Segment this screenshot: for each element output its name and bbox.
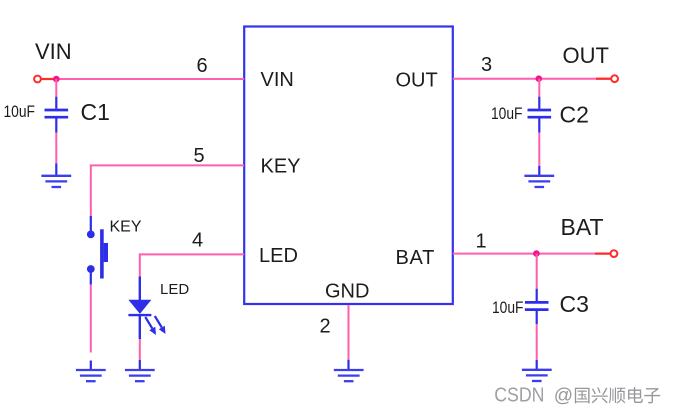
terminal BAT (611, 250, 618, 257)
svg-text:C1: C1 (81, 99, 110, 125)
svg-text:BAT: BAT (561, 214, 604, 240)
IC U1 body (244, 27, 453, 305)
svg-text:C2: C2 (560, 102, 589, 128)
ground KEY (76, 370, 106, 381)
capacitor C3 plates (525, 302, 549, 309)
wire C3 upper (536, 254, 538, 289)
capacitor C2 plates (528, 110, 552, 117)
wire BAT horizontal (453, 253, 610, 255)
switch KEY contact bottom (87, 265, 95, 273)
LED D1 bottom lead (139, 315, 141, 339)
svg-text:C3: C3 (560, 291, 589, 317)
switch KEY actuator bar (100, 229, 104, 278)
wire C1 lower (55, 133, 57, 164)
svg-text:VIN: VIN (35, 39, 72, 64)
capacitor C2 lead bottom (538, 119, 540, 133)
wire KEY pin5 horizontal (91, 165, 244, 218)
wire GND pin2 vertical (348, 305, 350, 360)
wire VIN horizontal (42, 78, 245, 80)
svg-text:BAT: BAT (396, 247, 436, 269)
switch KEY contact top (87, 231, 95, 239)
wire OUT horizontal (453, 78, 611, 80)
wire KEY to ground (90, 285, 92, 353)
ground C1 (41, 176, 71, 187)
watermark char zi (644, 388, 660, 403)
svg-text:3: 3 (481, 54, 492, 76)
wire LED to ground (139, 339, 141, 361)
ground lead KEY (90, 361, 92, 370)
capacitor C3 lead bottom (536, 311, 538, 324)
wire C3 lower (536, 324, 538, 360)
svg-text:@: @ (554, 386, 573, 407)
capacitor C2 lead top (538, 97, 540, 109)
ground LED (125, 370, 155, 381)
LED D1 triangle (128, 300, 151, 314)
svg-text:6: 6 (197, 55, 208, 77)
capacitor C3 lead top (536, 289, 538, 301)
node junction VIN/C1 (53, 76, 60, 83)
LED D1 cathode bar (128, 314, 151, 316)
wire C2 upper (538, 79, 540, 97)
capacitor C1 lead bottom (55, 119, 57, 133)
svg-text:OUT: OUT (396, 70, 438, 92)
switch KEY actuator bump (104, 243, 108, 262)
svg-text:1: 1 (476, 231, 487, 253)
svg-text:GND: GND (325, 281, 369, 303)
node junction BAT/C3 (533, 250, 540, 257)
ground lead C2 (538, 166, 540, 176)
watermark char shun (609, 388, 625, 404)
svg-text:KEY: KEY (261, 156, 301, 178)
svg-text:10uF: 10uF (492, 298, 524, 317)
watermark char dian (628, 387, 643, 403)
svg-text:KEY: KEY (110, 218, 142, 235)
ground lead LED (139, 360, 141, 370)
svg-text:4: 4 (192, 230, 203, 252)
switch KEY bottom lead (90, 272, 92, 285)
capacitor C1 lead top (55, 97, 57, 109)
svg-text:OUT: OUT (563, 43, 609, 68)
svg-text:CSDN: CSDN (494, 385, 544, 407)
ground C3 (522, 370, 552, 381)
watermark char guo (575, 388, 590, 404)
capacitor C1 plates (45, 110, 69, 117)
wire OUT terminal stub (red) (596, 78, 611, 80)
ground lead C3 (536, 360, 538, 370)
wire C2 lower (538, 133, 540, 166)
svg-text:10uF: 10uF (4, 102, 36, 121)
wire C1 upper (55, 79, 57, 97)
terminal VIN (34, 76, 41, 83)
svg-text:LED: LED (160, 281, 189, 298)
LED arrow 2 (155, 316, 166, 334)
switch KEY top lead (90, 216, 92, 231)
wire BAT terminal stub (red) (595, 253, 610, 255)
ground C2 (524, 176, 554, 187)
LED arrow 1 (145, 317, 156, 335)
svg-text:10uF: 10uF (491, 104, 523, 123)
watermark char xing (592, 387, 608, 403)
svg-text:LED: LED (259, 245, 298, 267)
node junction OUT/C2 (536, 75, 543, 82)
ground lead GND net (347, 360, 349, 370)
svg-text:VIN: VIN (261, 69, 294, 91)
LED D1 top lead (139, 277, 141, 301)
ground GND net (334, 370, 364, 381)
ground lead C1 (55, 164, 57, 176)
wire VIN terminal stub (red) (42, 78, 54, 80)
terminal OUT (611, 75, 618, 82)
wire LED pin4 horizontal (140, 254, 244, 277)
svg-text:2: 2 (320, 316, 331, 338)
svg-text:5: 5 (194, 145, 205, 167)
